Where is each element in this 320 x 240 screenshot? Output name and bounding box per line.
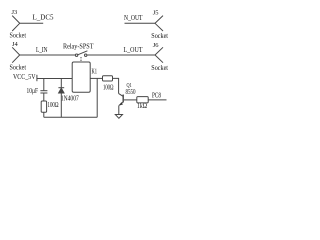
transistor Q1 emitter lead: [119, 102, 123, 106]
svg-text:J5: J5: [153, 10, 159, 17]
wire diode branch top: [60, 79, 62, 88]
svg-text:N_OUT: N_OUT: [124, 15, 143, 22]
transistor Q1 collector lead: [119, 94, 124, 97]
connector J6: [155, 47, 163, 62]
wire capacitor branch top: [43, 79, 45, 91]
relay switch arm: [78, 51, 88, 55]
svg-text:K1: K1: [92, 69, 98, 76]
connector J3: [12, 16, 20, 31]
diode D1 triangle: [59, 88, 64, 93]
transistor Q1 base bar: [122, 95, 124, 103]
svg-text:Relay-SPST: Relay-SPST: [63, 43, 94, 50]
svg-text:Socket: Socket: [151, 65, 168, 72]
svg-text:PC8: PC8: [152, 92, 161, 99]
svg-text:100Ω: 100Ω: [103, 84, 114, 91]
svg-text:J4: J4: [12, 41, 19, 48]
diode D1 cathode bar: [58, 87, 64, 89]
wire L_OUT: [87, 54, 155, 56]
svg-text:J3: J3: [12, 9, 18, 16]
svg-text:VCC_5V: VCC_5V: [13, 74, 36, 81]
resistor R2 body: [103, 76, 113, 81]
ground symbol: [115, 115, 122, 119]
svg-text:100Ω: 100Ω: [48, 102, 59, 109]
wire coil to resistor R2: [90, 77, 102, 79]
capacitor C1 plates: [40, 90, 47, 92]
wire emitter to ground: [118, 105, 120, 114]
relay coil K1 box: [72, 62, 90, 92]
svg-text:8550: 8550: [126, 89, 136, 96]
wire PC8: [148, 99, 166, 101]
svg-text:J6: J6: [153, 42, 160, 49]
svg-text:Socket: Socket: [151, 33, 168, 40]
wire R2 to collector bend: [113, 78, 119, 93]
relay switch contact left: [75, 54, 77, 56]
wire N_OUT: [125, 22, 156, 24]
svg-text:1kΩ: 1kΩ: [137, 103, 147, 110]
power port VCC_5V bar: [36, 75, 38, 81]
wire resistor R1 to bottom rail: [43, 112, 45, 117]
svg-text:L_OUT: L_OUT: [124, 47, 144, 54]
wire L_DC5: [20, 22, 44, 24]
transistor Q1 emitter arrow: [119, 102, 123, 105]
wire capacitor to resistor R1: [43, 93, 45, 101]
resistor R3 body: [137, 97, 148, 103]
wire L_IN: [20, 54, 76, 56]
wire right riser: [96, 78, 98, 117]
svg-text:10µF: 10µF: [27, 88, 39, 95]
svg-text:L_DC5: L_DC5: [33, 15, 55, 22]
svg-text:1N4007: 1N4007: [61, 96, 79, 103]
relay switch contact right: [85, 54, 87, 56]
wire base to resistor R3: [124, 99, 137, 101]
wire VCC rail: [37, 78, 72, 80]
resistor R1 body: [41, 101, 46, 112]
wire bottom rail: [44, 116, 97, 118]
connector J5: [155, 16, 163, 31]
wire diode to bottom rail: [60, 93, 62, 117]
svg-text:Socket: Socket: [10, 64, 27, 71]
relay linkage dashed line: [80, 57, 82, 62]
svg-text:Socket: Socket: [10, 33, 27, 40]
connector J4: [12, 47, 20, 62]
svg-text:L_IN: L_IN: [36, 47, 48, 54]
